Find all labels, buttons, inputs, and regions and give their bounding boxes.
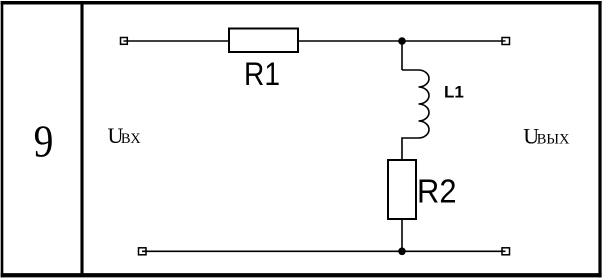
svg-text:9: 9 (34, 117, 54, 167)
svg-text:UВХ: UВХ (108, 123, 142, 148)
svg-text:UВЫХ: UВЫХ (523, 124, 570, 149)
svg-text:R2: R2 (417, 173, 457, 210)
svg-text:L1: L1 (444, 83, 464, 102)
svg-text:R1: R1 (244, 56, 280, 92)
